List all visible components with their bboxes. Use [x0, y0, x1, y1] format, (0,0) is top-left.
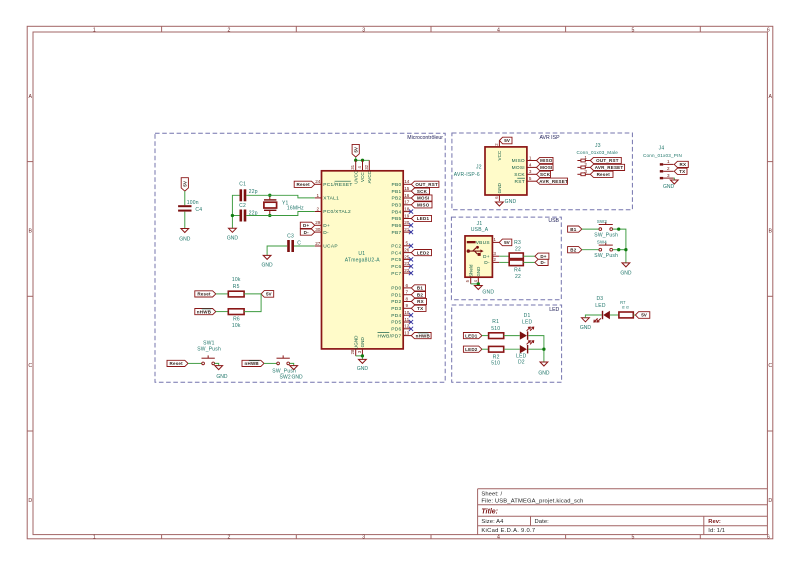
svg-text:R4: R4	[514, 268, 521, 274]
wire R1 to D1	[504, 335, 520, 337]
no-connect X on U1 pin 10	[409, 313, 413, 317]
resistor R3	[509, 253, 523, 259]
global label Reset at PC1/RESET	[294, 181, 315, 187]
svg-text:SW_Push: SW_Push	[197, 346, 221, 352]
wire nHWB to R6	[216, 311, 229, 313]
svg-text:6: 6	[767, 27, 770, 33]
svg-text:B1: B1	[417, 286, 423, 291]
U1 pin 25 PC5	[391, 254, 411, 263]
svg-text:LED2: LED2	[417, 250, 430, 255]
ground symbol below switches	[622, 263, 630, 267]
J4 pin 2	[660, 166, 674, 173]
svg-text:22: 22	[404, 268, 410, 273]
svg-text:C4: C4	[195, 207, 202, 213]
svg-text:5: 5	[632, 27, 635, 33]
svg-text:8: 8	[406, 296, 409, 301]
global label RX at J4	[674, 161, 688, 167]
wire D- to R4	[499, 261, 509, 263]
global label Reset at SW1	[167, 360, 188, 366]
global label TX at J4	[674, 168, 687, 174]
svg-text:D-: D-	[304, 230, 309, 235]
svg-text:D+: D+	[483, 254, 490, 260]
svg-text:30: 30	[315, 227, 321, 232]
junction SW3	[617, 227, 620, 230]
junction at U1 GND	[361, 354, 364, 357]
junction at Y1 bottom	[268, 214, 271, 217]
svg-text:14: 14	[404, 179, 410, 184]
wire Reset to SW1	[188, 362, 202, 364]
svg-text:OUT_RST: OUT_RST	[596, 158, 619, 163]
wire LED2 to R2	[482, 348, 489, 350]
svg-text:1: 1	[493, 237, 496, 242]
J1 pin 3 D+	[483, 251, 499, 260]
crystal Y1	[264, 195, 277, 215]
J1 VBUS bar icon	[467, 241, 476, 243]
svg-text:PB2: PB2	[392, 196, 402, 202]
frame row letters left	[28, 94, 32, 504]
capacitor C4	[178, 205, 191, 207]
svg-text:C3: C3	[287, 234, 294, 240]
global label LED2	[411, 250, 431, 256]
svg-text:29: 29	[315, 220, 321, 225]
resistor R5	[228, 291, 244, 297]
global label OUT_RST	[411, 181, 439, 187]
wire R5 to 5V	[244, 293, 261, 295]
svg-text:GND: GND	[262, 263, 274, 269]
svg-text:3: 3	[529, 169, 532, 174]
global label SCK	[411, 188, 429, 194]
svg-text:R3: R3	[514, 240, 521, 246]
J2 pin 3 SCK	[514, 169, 536, 178]
svg-text:USB: USB	[548, 218, 559, 224]
global label LED1	[411, 215, 431, 221]
junction at UVCC	[354, 159, 357, 162]
svg-text:10k: 10k	[232, 277, 241, 283]
svg-text:GND: GND	[292, 374, 304, 380]
U1 pin 32 AVCC	[364, 160, 372, 183]
svg-text:AVR-ISP-6: AVR-ISP-6	[454, 172, 480, 178]
svg-text:1: 1	[317, 193, 320, 198]
U1 pin 27 UCAP	[315, 241, 338, 250]
global label D- at USB	[535, 259, 548, 265]
svg-text:1: 1	[93, 27, 96, 33]
svg-text:B1: B1	[570, 227, 576, 232]
switch SW4 SW_Push	[599, 248, 602, 251]
capacitor C2	[240, 210, 243, 222]
svg-text:13: 13	[404, 331, 410, 336]
global label Reset at R5	[195, 291, 216, 297]
svg-text:5V: 5V	[353, 146, 358, 153]
svg-text:D: D	[768, 498, 772, 504]
svg-text:5V: 5V	[183, 180, 188, 187]
svg-text:File: USB_ATMEGA_projet.kicad_: File: USB_ATMEGA_projet.kicad_sch	[481, 498, 583, 504]
svg-text:D1: D1	[524, 313, 531, 319]
svg-text:C: C	[28, 363, 32, 369]
wire C4 to ground	[184, 212, 186, 229]
svg-text:24: 24	[315, 179, 321, 184]
svg-text:1: 1	[584, 155, 587, 160]
global label Reset at J3	[590, 171, 613, 177]
ground symbol below C3	[263, 255, 271, 259]
svg-text:1: 1	[667, 159, 670, 164]
U1 pin 22 PC7	[391, 268, 411, 277]
svg-text:GND: GND	[227, 235, 239, 241]
svg-text:PB5: PB5	[392, 216, 402, 222]
svg-text:PD6: PD6	[391, 327, 401, 333]
U1 pin 26 PC4	[391, 248, 411, 257]
wire R3 to D+ label	[523, 255, 535, 257]
ground symbol below J2	[496, 202, 504, 206]
frame column numbers top	[93, 27, 770, 33]
svg-text:18: 18	[404, 207, 410, 212]
svg-text:Conn_01x03_PIN: Conn_01x03_PIN	[643, 153, 682, 158]
svg-text:UVCC: UVCC	[353, 170, 358, 184]
connector J2 AVR-ISP-6 body	[485, 147, 527, 195]
svg-text:C: C	[297, 240, 301, 246]
U1 pin 13 HWB/PD7	[378, 331, 412, 340]
U1 pin 21 PB7	[392, 227, 411, 236]
global label nHWB at R6	[195, 309, 216, 315]
U1 pin 23 PC6	[391, 261, 411, 270]
svg-text:3: 3	[493, 251, 496, 256]
U1 pin 29 D+	[315, 220, 330, 229]
svg-text:MOSI: MOSI	[417, 196, 429, 201]
svg-text:SCK: SCK	[514, 172, 525, 178]
no-connect X on U1 pin 5	[409, 244, 413, 248]
svg-text:9: 9	[406, 303, 409, 308]
LED D2	[520, 345, 527, 353]
power label 5V at J1	[499, 239, 512, 246]
svg-text:6: 6	[767, 535, 770, 541]
svg-text:5V: 5V	[266, 292, 273, 297]
J1 pin 4 GND	[473, 267, 481, 284]
section box Microcontroleur	[155, 133, 445, 382]
svg-text:D: D	[28, 498, 32, 504]
resistor R4	[509, 260, 523, 266]
svg-text:B: B	[768, 229, 772, 235]
svg-text:SCK: SCK	[540, 172, 551, 177]
svg-text:2: 2	[667, 166, 670, 171]
wire B1 to SW3	[582, 228, 599, 230]
svg-text:20: 20	[404, 220, 410, 225]
svg-text:32: 32	[364, 164, 369, 169]
svg-text:MISO: MISO	[417, 203, 430, 208]
global label B1	[568, 226, 582, 232]
svg-text:22p: 22p	[249, 189, 258, 195]
U1 pin 11 PD5	[391, 317, 411, 326]
wire gnd to D3	[585, 315, 601, 318]
frame row ticks left	[27, 162, 33, 431]
svg-text:D-: D-	[323, 230, 329, 236]
svg-text:PC5: PC5	[391, 257, 401, 263]
global label nHWB	[411, 333, 431, 339]
svg-text:31: 31	[350, 164, 355, 169]
microcontroller U1 body	[322, 171, 404, 349]
svg-text:11: 11	[404, 317, 409, 322]
J3 pin 2	[577, 162, 590, 169]
svg-text:D-: D-	[540, 260, 545, 265]
svg-text:2: 2	[228, 535, 231, 541]
svg-text:RX: RX	[417, 299, 424, 304]
J3 pin 1	[577, 155, 590, 162]
svg-text:100n: 100n	[187, 200, 199, 206]
svg-text:1: 1	[93, 535, 96, 541]
svg-text:10k: 10k	[232, 323, 241, 329]
U1 pin 1 XTAL1	[315, 193, 339, 202]
svg-text:3: 3	[362, 535, 365, 541]
global label D- at U1	[300, 229, 314, 235]
junction at J1 gnd	[477, 282, 480, 285]
svg-text:PB3: PB3	[392, 203, 402, 209]
wire SW2 to ground	[290, 363, 294, 365]
power label 5V at R7	[635, 312, 649, 319]
svg-text:USB_A: USB_A	[471, 227, 489, 233]
svg-text:5: 5	[406, 241, 409, 246]
section box LED	[452, 305, 562, 382]
no-connect X on U1 pin 22	[409, 271, 413, 275]
svg-text:GND: GND	[482, 289, 494, 295]
svg-text:PB1: PB1	[392, 189, 402, 195]
svg-text:A: A	[768, 94, 772, 100]
svg-text:3: 3	[667, 173, 670, 178]
svg-text:LED: LED	[516, 353, 527, 359]
svg-text:GND: GND	[620, 270, 632, 276]
power label 5V at C4	[181, 178, 188, 191]
wire B2 to SW4	[582, 249, 599, 251]
U1 pin 3 GND	[357, 337, 365, 356]
svg-text:PC7: PC7	[391, 271, 401, 277]
wire D3 to R7	[610, 314, 619, 316]
wire SW3 to gnd rail	[613, 229, 626, 263]
svg-text:ATmega8U2-A: ATmega8U2-A	[345, 258, 381, 264]
svg-text:5: 5	[529, 176, 532, 181]
svg-text:GND: GND	[663, 184, 675, 190]
svg-text:R2: R2	[493, 354, 500, 360]
svg-text:nHWB: nHWB	[197, 309, 212, 314]
svg-text:27: 27	[315, 241, 321, 246]
svg-text:17: 17	[404, 200, 410, 205]
svg-text:PC2: PC2	[391, 244, 401, 250]
svg-text:Date:: Date:	[535, 519, 550, 525]
svg-text:GND: GND	[179, 237, 191, 243]
svg-text:Reset: Reset	[170, 361, 184, 366]
global label B1	[411, 285, 425, 291]
svg-text:TX: TX	[679, 169, 685, 174]
wire SW4 to gnd rail	[613, 249, 626, 251]
wire 5V to U1 power pins	[356, 157, 370, 160]
svg-text:HWB/PD7: HWB/PD7	[378, 333, 402, 339]
svg-text:MOSI: MOSI	[512, 165, 525, 171]
svg-text:12: 12	[404, 324, 410, 329]
svg-text:PC6: PC6	[391, 264, 401, 270]
wire R7 to 5V	[633, 314, 635, 316]
svg-text:25: 25	[404, 254, 410, 259]
no-connect X on U1 pin 20	[409, 223, 413, 227]
J1 USB trident icon	[467, 246, 484, 256]
wire J4 pin3 to ground	[673, 178, 676, 180]
J1 pin 5 Shield	[465, 264, 473, 284]
frame column ticks bottom	[162, 535, 701, 539]
ground symbol at SW1	[215, 366, 223, 370]
U1 pin 9 PD3	[391, 303, 411, 312]
svg-text:Title:: Title:	[481, 509, 498, 516]
frame column numbers bottom	[93, 535, 770, 541]
svg-text:510: 510	[491, 361, 500, 367]
svg-text:Shield: Shield	[468, 264, 473, 277]
svg-text:MISO: MISO	[540, 158, 553, 163]
capacitor C1	[240, 189, 243, 201]
svg-text:XTAL1: XTAL1	[323, 196, 339, 202]
global label SCK at J2	[537, 171, 551, 177]
svg-text:PB0: PB0	[392, 182, 402, 188]
J1 pin 2 D-	[484, 257, 499, 266]
svg-text:D-: D-	[484, 260, 490, 266]
wire 5V to C4	[184, 191, 186, 205]
resistor R2	[489, 346, 504, 352]
svg-text:OUT_RST: OUT_RST	[415, 182, 438, 187]
no-connect X on U1 pin 23	[409, 264, 413, 268]
svg-text:D+: D+	[323, 223, 330, 229]
U1 pin 28 UGND	[350, 335, 358, 356]
global label LED1	[463, 333, 482, 339]
global label MISO	[411, 202, 432, 208]
svg-text:10: 10	[404, 310, 410, 315]
svg-text:LED1: LED1	[465, 333, 478, 338]
no-connect X on U1 pin 18	[409, 210, 413, 214]
svg-text:D+: D+	[540, 254, 546, 259]
svg-text:1: 1	[529, 155, 532, 160]
U1 pin 5 PC2	[391, 241, 411, 250]
svg-text:AVR_RESET: AVR_RESET	[595, 165, 624, 170]
ground symbol below C4	[181, 229, 189, 233]
svg-text:PC4: PC4	[391, 250, 401, 256]
ground symbol at D3	[582, 318, 590, 322]
section box USB	[451, 217, 561, 300]
svg-text:B: B	[28, 229, 32, 235]
svg-text:nHWB: nHWB	[245, 361, 260, 366]
U1 pin 18 PB4	[392, 207, 411, 216]
connector J1 USB_A body	[465, 236, 492, 277]
wire nHWB to SW2	[264, 362, 277, 364]
J2 pin 1 MISO	[512, 155, 537, 164]
frame column ticks top	[162, 26, 701, 32]
junction at Y1 top	[268, 194, 271, 197]
svg-text:3: 3	[362, 27, 365, 33]
svg-text:AVCC: AVCC	[367, 170, 372, 183]
global label MISO at J2	[537, 157, 554, 163]
svg-text:SW3: SW3	[597, 219, 607, 224]
svg-text:7: 7	[406, 290, 409, 295]
LED D1	[520, 331, 527, 339]
wire C1 to XTAL1	[246, 195, 314, 198]
ground symbol below U1	[359, 359, 367, 363]
frame row letters right	[768, 94, 772, 504]
svg-text:R6: R6	[233, 317, 240, 323]
U1 pin 10 PD4	[391, 310, 411, 319]
svg-text:TX: TX	[417, 306, 423, 311]
svg-text:J4: J4	[659, 146, 665, 152]
svg-text:PC0/XTAL2: PC0/XTAL2	[323, 209, 351, 215]
svg-text:nHWB: nHWB	[416, 333, 431, 338]
svg-text:D2: D2	[518, 360, 525, 366]
global label D+ at USB	[535, 253, 549, 259]
wire R6 to 5V node	[244, 294, 261, 312]
svg-text:16MHz: 16MHz	[287, 205, 304, 211]
svg-text:Sheet: /: Sheet: /	[481, 491, 502, 497]
svg-text:5V: 5V	[504, 240, 511, 245]
no-connect X on U1 pin 21	[409, 230, 413, 234]
J1 pin 1 VBUS	[476, 237, 499, 246]
svg-text:RX: RX	[679, 162, 686, 167]
U1 pin 12 PD6	[391, 324, 411, 333]
svg-text:5V: 5V	[641, 313, 648, 318]
svg-text:R5: R5	[233, 284, 240, 290]
svg-text:J3: J3	[595, 143, 601, 149]
svg-text:PD3: PD3	[391, 306, 401, 312]
U1 pin 17 PB3	[392, 200, 411, 209]
junction at VCC	[361, 159, 364, 162]
junction SW4 b	[624, 248, 627, 251]
svg-text:RST: RST	[515, 179, 525, 185]
svg-text:SW2: SW2	[279, 375, 291, 381]
wire Reset to R5	[216, 293, 229, 295]
svg-text:C2: C2	[239, 203, 246, 209]
svg-text:GND: GND	[476, 267, 481, 277]
svg-text:GND: GND	[580, 325, 592, 331]
svg-text:GND: GND	[538, 370, 550, 376]
global label B2	[568, 247, 582, 253]
svg-text:SW1: SW1	[203, 340, 215, 346]
global label TX	[411, 305, 426, 311]
svg-text:B2: B2	[417, 292, 423, 297]
svg-text:21: 21	[404, 227, 410, 232]
svg-text:15: 15	[404, 186, 410, 191]
svg-text:AVR ISP: AVR ISP	[539, 135, 560, 141]
no-connect X on U1 pin 25	[409, 257, 413, 261]
wire LED1 to R1	[482, 335, 489, 337]
resistor R6	[228, 309, 244, 315]
wire D1 to gnd rail	[528, 336, 544, 362]
U1 pin 24 PC1/RESET	[315, 179, 353, 188]
U1 pin 14 PB0	[392, 179, 411, 188]
svg-text:C: C	[768, 363, 772, 369]
J2 pin 5 RST	[515, 176, 537, 185]
svg-text:LED: LED	[595, 303, 606, 309]
global label MOSI	[411, 195, 432, 201]
global label OUT_RST at J3	[590, 157, 621, 163]
no-connect X on U1 pin 12	[409, 327, 413, 331]
U1 pin 16 PB2	[392, 193, 411, 202]
ground symbol below C1/C2	[229, 228, 237, 232]
svg-text:3: 3	[584, 169, 587, 174]
svg-text:KiCad E.D.A. 9.0.7: KiCad E.D.A. 9.0.7	[481, 528, 535, 534]
power label 5V at R5	[261, 291, 274, 298]
svg-text:D3: D3	[596, 296, 603, 302]
svg-text:SW4: SW4	[597, 240, 607, 245]
svg-text:GND: GND	[360, 337, 365, 348]
svg-text:16: 16	[404, 193, 410, 198]
svg-text:PB4: PB4	[392, 209, 402, 215]
U1 pin 19 PB5	[392, 213, 411, 222]
svg-text:22: 22	[515, 246, 521, 252]
svg-text:AVR_RESET: AVR_RESET	[539, 179, 568, 184]
wire C1 left to C2 left to ground	[232, 195, 239, 228]
svg-text:MISO: MISO	[512, 158, 525, 164]
switch SW3 SW_Push	[599, 228, 602, 231]
svg-text:PD1: PD1	[391, 292, 401, 298]
svg-text:23: 23	[404, 261, 410, 266]
svg-text:PD5: PD5	[391, 320, 401, 326]
